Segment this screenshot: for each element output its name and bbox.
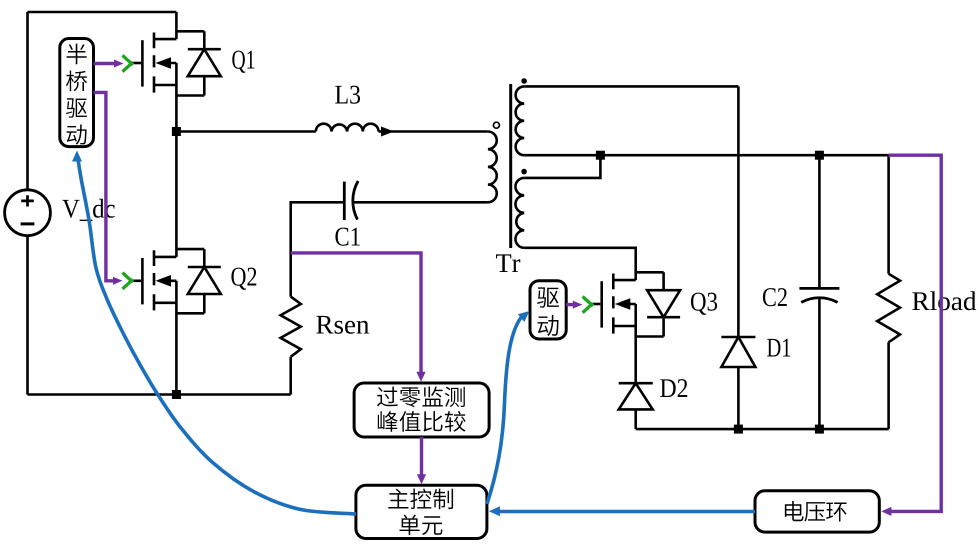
- label Tr: [496, 254, 520, 272]
- wire Q2 source: [175, 303, 178, 395]
- text hb-drive char 1: [67, 44, 87, 65]
- chevron Q2 gate: [123, 273, 133, 289]
- text hb-drive char 3: [66, 98, 87, 117]
- wire D2 to rail: [634, 409, 637, 429]
- arrow main control to HB-drive: [78, 156, 357, 514]
- label D1: [767, 339, 790, 357]
- wire output to voltage loop: [889, 155, 942, 511]
- node C2 top: [815, 151, 824, 160]
- transformer secondary winding 1: [516, 86, 525, 155]
- wire L3 to transformer: [379, 130, 488, 133]
- wire Q1 source to node: [175, 85, 178, 132]
- wire Q3 source to D2: [634, 326, 637, 383]
- box voltage loop: [755, 491, 879, 532]
- wire HB-drive to Q2 gate: [94, 92, 114, 280]
- transformer primary winding: [488, 132, 497, 203]
- arrow voltage loop to main control: [497, 510, 755, 514]
- wire Rload bottom: [887, 342, 890, 429]
- resistor Rload: [877, 274, 900, 343]
- diode D2: [619, 382, 653, 385]
- wire C1 right: [354, 201, 488, 204]
- chevron Q1 gate: [123, 55, 133, 71]
- wire top rail: [28, 11, 177, 14]
- transformer secondary winding 2: [515, 178, 524, 248]
- label C1: [335, 228, 359, 246]
- wire left rail upper: [26, 12, 29, 190]
- label Q2: [231, 268, 256, 290]
- chevron Q3 gate: [583, 297, 593, 313]
- wire output bottom rail: [636, 428, 889, 431]
- label Rload: [912, 291, 976, 310]
- text voltage-loop: [785, 501, 847, 522]
- label Q3: [691, 293, 717, 315]
- arrow main control to drive: [487, 318, 521, 505]
- wire D1 branch: [737, 86, 740, 429]
- wire Q2 drain: [175, 132, 178, 257]
- text qu (drive box line1): [537, 287, 559, 307]
- label Rsen: [316, 316, 369, 334]
- transistor Q2: [132, 249, 221, 313]
- arrow HB-drive to Q1 gate: [94, 62, 115, 65]
- diode D1: [721, 336, 755, 339]
- wire Rload top: [887, 155, 890, 274]
- node bottom-left: [172, 390, 181, 399]
- node tap: [596, 151, 605, 160]
- text zero-cross line2: [378, 411, 466, 432]
- text hb-drive char 2: [66, 70, 87, 91]
- wire bottom rail: [28, 393, 291, 396]
- wire Q1 drain: [175, 12, 178, 39]
- text main-control line2: [399, 515, 442, 535]
- node midpoint: [172, 127, 181, 136]
- wire Rsen node to detect box: [291, 253, 421, 372]
- node D1 bottom: [734, 425, 743, 434]
- node C2 bottom: [815, 425, 824, 434]
- label C2: [763, 288, 787, 306]
- text main-control line1: [388, 489, 453, 510]
- arrow detect to main control: [420, 437, 423, 476]
- wire tap step: [524, 155, 600, 178]
- wire left rail lower: [26, 235, 29, 394]
- capacitor C2: [799, 287, 839, 290]
- inductor L3: [316, 124, 379, 132]
- capacitor C1: [343, 182, 346, 221]
- text dong (drive box line2): [538, 315, 559, 336]
- wire C1 left + Rsen lead: [291, 202, 345, 296]
- resistor Rsen: [281, 297, 301, 357]
- transistor Q1: [132, 31, 221, 95]
- transistor Q3: [591, 272, 680, 336]
- wire secondary2 bottom to Q3: [524, 248, 636, 280]
- label D2: [660, 379, 687, 397]
- box main control unit: [356, 485, 487, 538]
- box drive (driver): [530, 281, 566, 339]
- transformer secondary1 dot: [521, 78, 527, 84]
- transformer secondary2 dot: [521, 169, 527, 175]
- arrow drive to Q3 gate: [566, 303, 573, 306]
- transformer core: [509, 84, 512, 248]
- wire Rsen bottom: [289, 357, 292, 395]
- text zero-cross line1: [377, 387, 465, 408]
- arrow on L3 wire: [381, 127, 394, 137]
- transformer primary dot: [493, 122, 499, 128]
- voltage source V_dc: [5, 190, 51, 236]
- label Q1: [232, 51, 254, 73]
- box zero-cross detect / peak compare: [354, 383, 489, 437]
- wire C2 branch: [818, 155, 821, 429]
- text hb-drive char 4: [67, 124, 87, 144]
- wire secondary mid rail: [524, 154, 888, 157]
- box half-bridge drive: [60, 39, 94, 147]
- wire node to L3: [176, 130, 315, 133]
- wire secondary1 top to D1: [524, 85, 738, 88]
- label L3: [335, 86, 360, 104]
- label V_dc: [62, 199, 114, 221]
